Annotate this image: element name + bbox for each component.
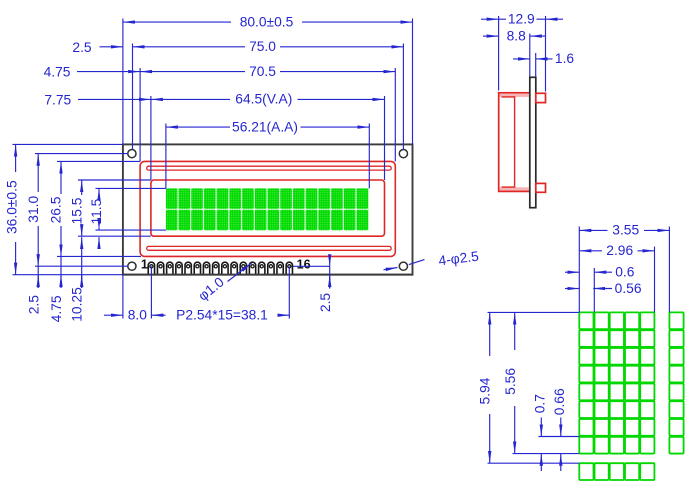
dimension 70.5 bezel width [139, 68, 141, 161]
dimension 3.55 character pitch [578, 227, 580, 313]
dimension P2.54*15=38.1 pin row [150, 266, 152, 318]
svg-text:11.5: 11.5 [89, 198, 104, 224]
svg-text:5.94: 5.94 [478, 377, 493, 404]
svg-text:2.5: 2.5 [318, 293, 333, 313]
dimension 26.5 bezel height [57, 160, 140, 162]
svg-text:5.56: 5.56 [503, 368, 518, 395]
mounting hole bottom-right (2.5 dia) [399, 262, 407, 270]
svg-text:1: 1 [141, 258, 148, 272]
svg-text:8.0: 8.0 [128, 308, 148, 323]
dimension 75.0 hole spacing [132, 44, 134, 150]
dimension 5.94 character row pitch [488, 311, 580, 313]
svg-text:0.7: 0.7 [533, 394, 548, 413]
svg-text:64.5(V.A): 64.5(V.A) [235, 92, 292, 107]
dimension 2.5 hole to bottom edge [37, 266, 39, 288]
svg-text:0.66: 0.66 [552, 388, 567, 415]
bezel outer outline (70.5 x 26.5) [140, 161, 395, 256]
dimension 80.0+-0.5 overall width [122, 19, 124, 145]
svg-text:2.5: 2.5 [72, 40, 92, 55]
svg-text:4.75: 4.75 [44, 65, 71, 80]
svg-text:15.5: 15.5 [70, 197, 85, 224]
svg-text:0.6: 0.6 [615, 265, 635, 280]
dimension 2.96 character width [654, 247, 656, 313]
mounting hole top-left (2.5 dia) [128, 150, 136, 158]
bezel bottom mounting slot [147, 246, 392, 250]
svg-text:56.21(A.A): 56.21(A.A) [232, 119, 298, 134]
mounting hole bottom-left (2.5 dia) [128, 262, 136, 270]
side view: top mounting tab [536, 93, 546, 102]
dimension 10.25 window to bottom edge [81, 249, 83, 288]
16 connector pins with 1.0 dia holes [148, 262, 292, 275]
module bottom edge over pins [123, 274, 413, 276]
svg-text:26.5: 26.5 [48, 196, 63, 223]
svg-text:75.0: 75.0 [249, 39, 276, 54]
svg-text:3.55: 3.55 [612, 223, 639, 238]
dimension 11.5 active area height [96, 187, 166, 189]
side view: PCB (1.6 thick) [530, 77, 536, 207]
LCD module front view: PCB outline [123, 144, 413, 274]
svg-text:4.75: 4.75 [49, 295, 64, 322]
dimension 15.5 viewing area height [78, 179, 151, 181]
dimension 36.0+-0.5 overall height [13, 143, 123, 145]
dimension 64.5 (V.A) viewing area width [150, 96, 152, 180]
bezel top mounting slot [147, 166, 392, 170]
svg-text:80.0±0.5: 80.0±0.5 [240, 14, 294, 29]
svg-text:36.0±0.5: 36.0±0.5 [4, 180, 19, 234]
svg-text:8.8: 8.8 [507, 28, 527, 43]
svg-text:2.96: 2.96 [606, 243, 633, 258]
svg-text:12.9: 12.9 [508, 12, 535, 27]
svg-text:7.75: 7.75 [44, 92, 71, 107]
dimension 4.75 bezel to bottom edge [60, 256, 62, 288]
dimension 8.0 edge to pin1 [122, 275, 124, 319]
side view: bottom mounting tab [536, 183, 546, 192]
leader phi 1.0 pin hole diameter [228, 263, 252, 281]
svg-text:0.56: 0.56 [615, 281, 642, 296]
dimension 5.56 character height [513, 453, 580, 455]
dimension 56.21 (A.A) active area width [165, 124, 167, 189]
svg-text:10.25: 10.25 [70, 287, 85, 322]
side view: bezel profile (red) [499, 93, 530, 192]
svg-text:P2.54*15=38.1: P2.54*15=38.1 [176, 308, 268, 323]
dimension 12.9 overall depth [498, 16, 500, 91]
active display area 56.21 x 11.5 (A.A), 16x2 green character blocks [166, 188, 369, 230]
dimension 2.5 pin row to bottom edge (right) [293, 265, 330, 267]
small arrows below at 236.2 line [81, 237, 83, 248]
leader 4 - phi 2.5 mounting holes [384, 268, 398, 270]
character cell detail: 5x8 dot matrix [579, 312, 683, 480]
mounting hole top-right (2.5 dia) [399, 150, 407, 158]
dimension 0.7 dot row pitch [539, 436, 580, 438]
dimension 0.66 dot height [560, 418, 562, 437]
svg-text:70.5: 70.5 [249, 64, 276, 79]
dimension 0.56 dot width [565, 288, 579, 290]
dimension 1.6 PCB thickness [535, 53, 537, 77]
svg-text:16: 16 [297, 258, 311, 272]
dimension 8.8 bezel depth [529, 34, 531, 77]
dimension 0.6 dot pitch [593, 268, 595, 312]
dimension 31.0 hole spacing vertical [35, 153, 128, 155]
display window opening (64.5 x 15.5 V.A) [151, 180, 385, 236]
svg-text:1.6: 1.6 [555, 51, 575, 66]
svg-text:2.5: 2.5 [27, 295, 42, 315]
svg-text:31.0: 31.0 [26, 196, 41, 223]
